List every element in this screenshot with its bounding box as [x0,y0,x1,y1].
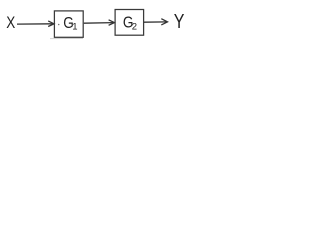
svg-text:Y: Y [174,9,185,32]
svg-text:X: X [6,14,15,33]
svg-text:2: 2 [132,21,137,32]
svg-text:1: 1 [72,22,77,33]
